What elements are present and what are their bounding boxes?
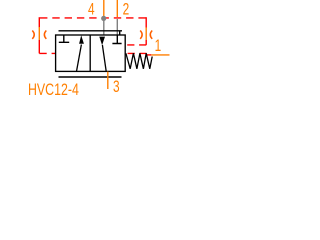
blocked port T (right position) [112,35,121,44]
svg-text:2: 2 [123,1,130,19]
orifice O1 left arc [32,31,34,39]
valve position divider [89,35,91,71]
flow arrow (right position) head (points down) [99,37,105,46]
line below valve [59,76,122,78]
orifice O1 (left): vertical orange segment [38,27,40,40]
blocked port T (left position) [59,35,69,42]
svg-text:HVC12-4: HVC12-4 [28,81,79,99]
node: junction dot pilot/port4 [101,16,106,21]
svg-text:3: 3 [113,78,120,96]
flow arrow (right position) shaft [102,45,106,71]
red dash overlapping port 1 line [147,54,152,56]
stub: drain line to valve top [119,31,121,35]
orifice O2 (right): vertical orange segment [145,27,147,40]
wire: port 4 vertical (gray, below junction to valve top) [103,21,105,36]
orifice O1 right arc [44,31,46,39]
drain line above valve [59,30,123,32]
pilot line: dashed red along spring [128,52,147,54]
flow arrow (left position) head (points up) [79,35,84,44]
wire: port 2 vertical (gray, to valve top) [116,19,118,36]
orifice O2 right arc [150,31,152,39]
valve body envelope [56,35,126,71]
svg-text:4: 4 [88,1,95,19]
pilot line: left vertical red (orifice to corner) [38,40,40,53]
pilot line: dashed red into valve left side [39,52,56,54]
wire: port 2 vertical (orange, above pilot crossing) [116,0,118,17]
wire: port 1 horizontal (orange) [151,54,169,56]
pilot line: left corner vertical red [38,17,40,27]
svg-text:1: 1 [155,37,162,55]
pilot line: top horizontal dashed red [40,17,146,19]
pilot line: right vertical red (orifice to elbow) [145,40,147,45]
wire: port 3 vertical (orange) [107,72,109,89]
spring (right side of valve) [126,53,152,69]
flow arrow (left position) shaft [77,45,82,72]
pilot line: right corner vertical red (top) [145,17,147,27]
pilot line: dashed red into valve right side (upper) [127,44,146,46]
orifice O2 left arc [140,31,142,39]
wire: port 4 vertical (orange, above pilot junction) [103,0,105,16]
